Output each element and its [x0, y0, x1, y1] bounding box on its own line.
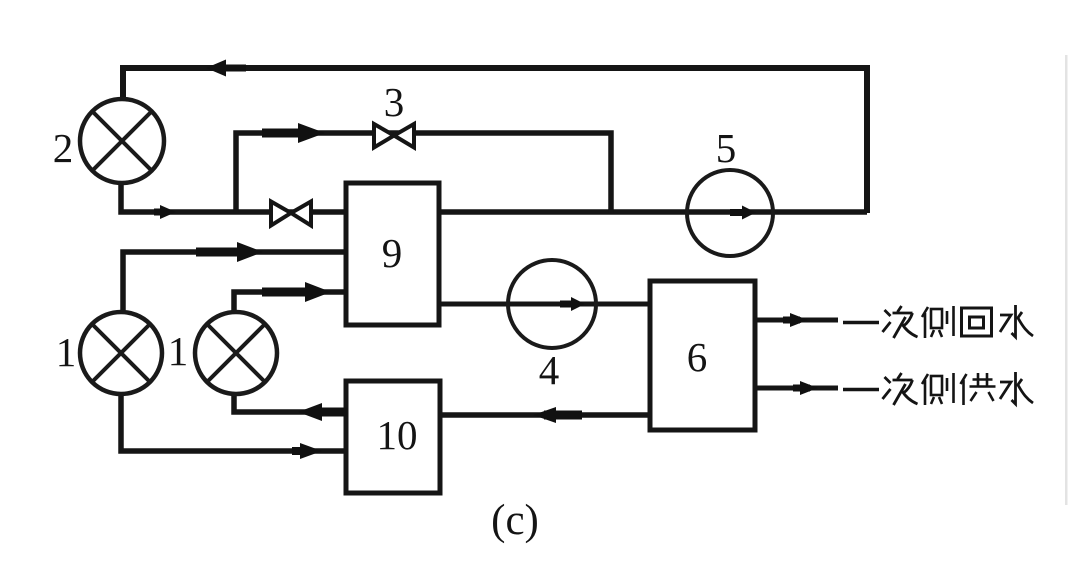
svg-text:4: 4	[539, 347, 560, 393]
svg-text:1: 1	[56, 329, 77, 375]
svg-text:3: 3	[384, 79, 405, 125]
svg-text:6: 6	[687, 334, 708, 380]
svg-text:9: 9	[382, 230, 403, 276]
svg-text:5: 5	[716, 125, 737, 171]
svg-text:1: 1	[168, 328, 189, 374]
svg-text:(c): (c)	[491, 497, 539, 544]
svg-text:10: 10	[377, 412, 418, 458]
svg-text:2: 2	[53, 125, 74, 171]
